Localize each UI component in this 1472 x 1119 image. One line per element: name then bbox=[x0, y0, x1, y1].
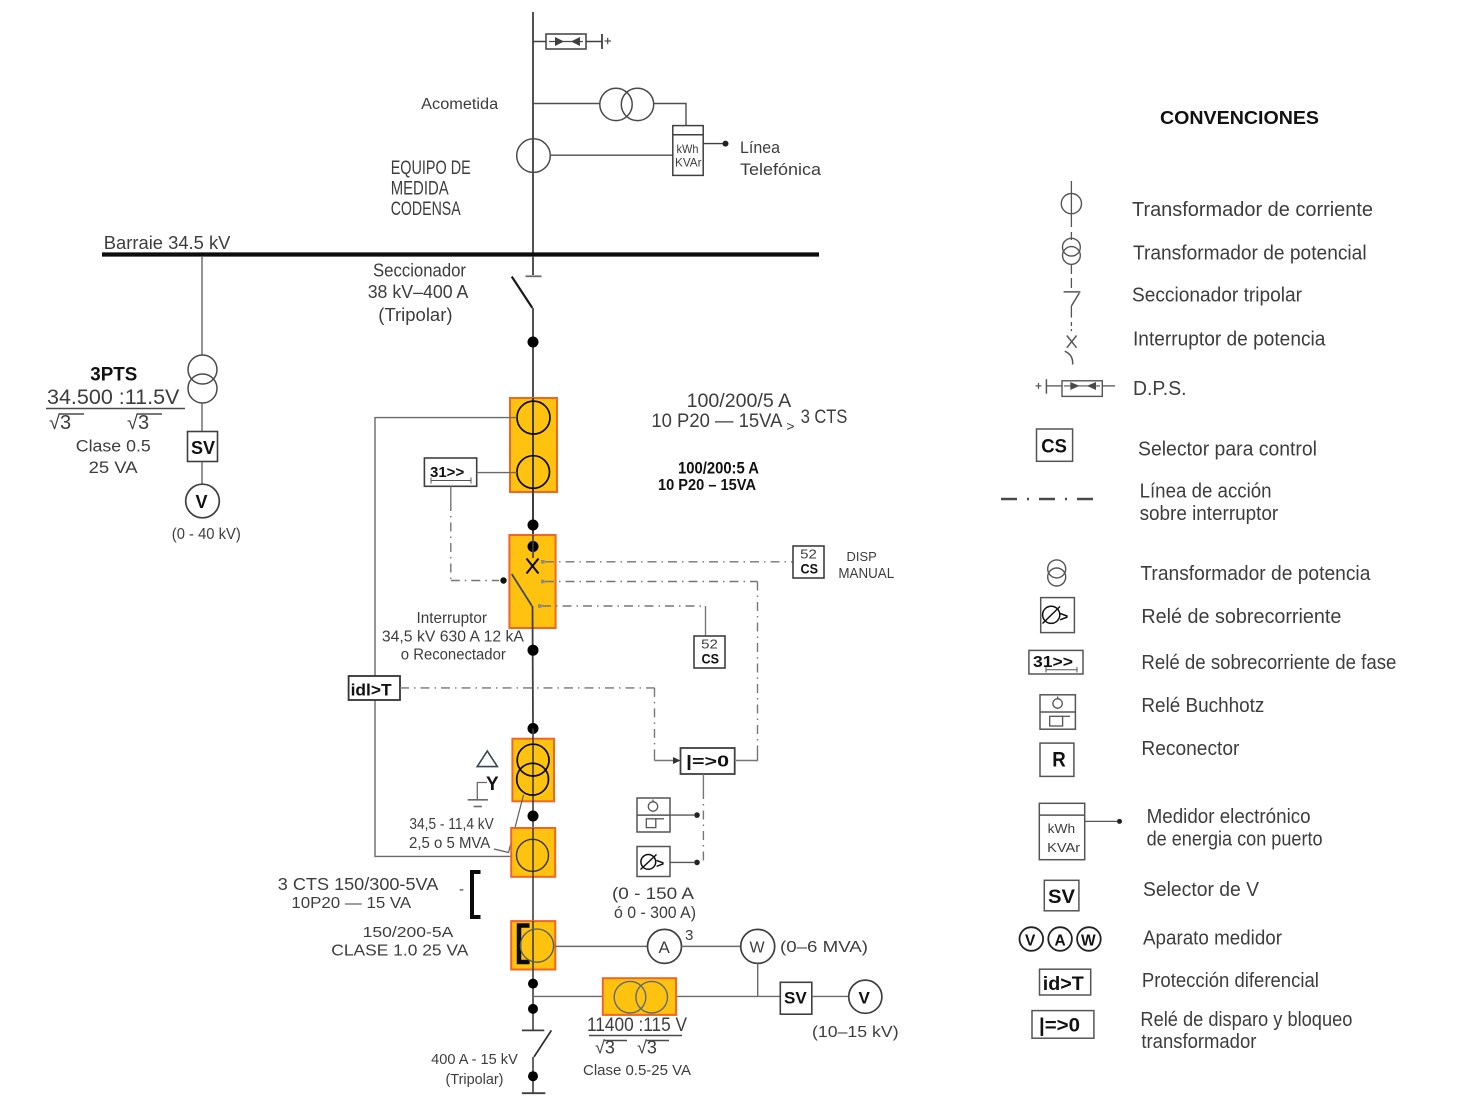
svg-text:DISP: DISP bbox=[847, 549, 877, 564]
svg-text:ó 0 - 300 A): ó 0 - 300 A) bbox=[614, 904, 696, 922]
svg-text:D.P.S.: D.P.S. bbox=[1133, 378, 1187, 400]
legend: reconector R box bbox=[1040, 743, 1074, 776]
svg-text:transformador: transformador bbox=[1141, 1031, 1256, 1053]
svg-text:31>>: 31>> bbox=[430, 464, 464, 481]
legend: phase overcurrent relay 31>> bbox=[1029, 650, 1083, 674]
svg-text:o Reconectador: o Reconectador bbox=[401, 647, 506, 664]
svg-text:Línea: Línea bbox=[740, 138, 781, 157]
svg-text:Telefónica: Telefónica bbox=[740, 160, 822, 179]
svg-text:11400 :115 V: 11400 :115 V bbox=[587, 1014, 687, 1036]
label: (0 - 150 A o 0 - 300 A) bbox=[612, 885, 696, 922]
legend: action line sample bbox=[1001, 498, 1093, 501]
wire: ammeter to wattmeter bbox=[682, 945, 741, 947]
wire: switch to CT box bbox=[532, 308, 534, 398]
wire: SV to voltmeter bbox=[201, 462, 203, 485]
wire: CT to meter bbox=[550, 154, 673, 156]
label: 100/200:5A bold CT data bbox=[658, 460, 759, 495]
svg-text:25 VA: 25 VA bbox=[89, 458, 139, 477]
legend label: Linea de accion sobre interruptor bbox=[1140, 481, 1279, 526]
differential protection relay idl>T bbox=[349, 676, 400, 700]
svg-text:Reconector: Reconector bbox=[1141, 738, 1239, 760]
svg-text:A: A bbox=[659, 938, 671, 957]
wire: main through CT box bbox=[532, 398, 534, 535]
LV PT windings bbox=[614, 981, 667, 1013]
svg-text:Seccionador tripolar: Seccionador tripolar bbox=[1132, 285, 1302, 307]
svg-text:Relé Buchhotz: Relé Buchhotz bbox=[1141, 695, 1264, 717]
svg-text:Aparato medidor: Aparato medidor bbox=[1143, 928, 1282, 950]
breaker X symbol bbox=[527, 535, 539, 574]
svg-text:kWh: kWh bbox=[1048, 821, 1076, 836]
CT box4 (3 CTS 150/300) bbox=[511, 828, 555, 877]
svg-text:10 P20 — 15VA: 10 P20 — 15VA bbox=[651, 411, 782, 432]
svg-text:Barraie 34.5 kV: Barraie 34.5 kV bbox=[104, 233, 231, 253]
potential transformers 3PTS bbox=[188, 355, 217, 403]
svg-text:SV: SV bbox=[784, 989, 807, 1008]
svg-text:kWh: kWh bbox=[677, 142, 699, 156]
current transformer CT upper bbox=[517, 401, 550, 434]
label: 3 CTS 150/300-5VA 10P20-15VA bbox=[278, 874, 439, 912]
legend: potential transformer symbol bbox=[1063, 232, 1081, 274]
label: DISP MANUAL bbox=[838, 549, 894, 582]
svg-text:EQUIPO DE: EQUIPO DE bbox=[391, 158, 471, 179]
label: EQUIPO DE MEDIDA CODENSA bbox=[391, 158, 471, 220]
selector 52/CS upper bbox=[793, 546, 824, 578]
label: 400 A - 15 kV (Tripolar) bbox=[431, 1052, 518, 1088]
svg-text:(Tripolar): (Tripolar) bbox=[446, 1072, 504, 1088]
D.P.S. surge arrester bbox=[546, 34, 586, 49]
svg-text:CS: CS bbox=[801, 560, 819, 576]
svg-text:>: > bbox=[786, 418, 794, 434]
svg-text:Relé de sobrecorriente de fase: Relé de sobrecorriente de fase bbox=[1141, 652, 1396, 674]
svg-text:(10–15 kV): (10–15 kV) bbox=[812, 1024, 899, 1041]
wire: left PT branch from bus bbox=[201, 256, 203, 356]
legend: electronic energy meter symbol bbox=[1039, 803, 1122, 859]
selector SV bbox=[188, 432, 218, 462]
svg-text:Relé de disparo y bloqueo: Relé de disparo y bloqueo bbox=[1140, 1009, 1352, 1031]
svg-text:38 kV–400 A: 38 kV–400 A bbox=[368, 282, 469, 302]
bottom seccionador 400A-15kV bbox=[522, 1030, 552, 1093]
label: Linea Telefonica bbox=[740, 138, 822, 179]
svg-text:√3: √3 bbox=[49, 412, 71, 434]
svg-text:sobre interruptor: sobre interruptor bbox=[1140, 503, 1279, 525]
wire: tap to potential transformer (Acometida metering) bbox=[533, 103, 600, 105]
voltmeter V (LV) bbox=[849, 980, 882, 1013]
svg-text:31>>: 31>> bbox=[1033, 654, 1073, 671]
wire: relay 31 to CT lower bbox=[477, 472, 517, 474]
svg-text:3PTS: 3PTS bbox=[90, 364, 137, 386]
svg-text:10P20 — 15 VA: 10P20 — 15 VA bbox=[291, 895, 411, 912]
svg-text:Selector para control: Selector para control bbox=[1138, 438, 1317, 460]
wire: overcurrent relay arrow to action line bbox=[670, 860, 700, 866]
svg-text:Interruptor de potencia: Interruptor de potencia bbox=[1133, 329, 1326, 351]
svg-text:(0 - 40 kV): (0 - 40 kV) bbox=[172, 526, 241, 543]
svg-text:CODENSA: CODENSA bbox=[391, 199, 461, 220]
ammeter A bbox=[648, 927, 694, 963]
svg-text:CS: CS bbox=[702, 650, 720, 666]
svg-text:-: - bbox=[459, 881, 464, 898]
current transformer in box4 bbox=[517, 839, 549, 871]
svg-text:Línea de acción: Línea de acción bbox=[1140, 481, 1272, 503]
svg-text:Medidor electrónico: Medidor electrónico bbox=[1147, 806, 1311, 828]
svg-text:CS: CS bbox=[1041, 437, 1067, 458]
svg-text:Y: Y bbox=[486, 774, 499, 795]
CT box5 (150/200-5A) bbox=[511, 921, 555, 969]
power transformer box bbox=[512, 739, 554, 802]
svg-text:3: 3 bbox=[685, 927, 693, 944]
svg-text:KVAr: KVAr bbox=[675, 156, 702, 170]
wire: CT box5 to ammeter bbox=[555, 945, 647, 947]
svg-text:Seccionador: Seccionador bbox=[373, 260, 466, 281]
svg-text:34.500 :11.5V: 34.500 :11.5V bbox=[47, 386, 179, 409]
svg-text:Transformador de potencia: Transformador de potencia bbox=[1140, 563, 1371, 585]
junction node bbox=[528, 520, 539, 531]
overcurrent relay (diagram) bbox=[637, 847, 670, 877]
svg-text:KVAr: KVAr bbox=[1047, 840, 1081, 855]
legend: overcurrent relay symbol bbox=[1041, 598, 1075, 633]
svg-text:2,5 o 5 MVA: 2,5 o 5 MVA bbox=[409, 835, 491, 852]
label: Seccionador 38 kV-400 A (Tripolar) bbox=[368, 260, 469, 326]
legend: differential protection id>T box bbox=[1040, 969, 1091, 995]
breaker blade bbox=[512, 574, 532, 606]
svg-text:150/200-5A: 150/200-5A bbox=[363, 924, 454, 941]
legend: CS selector box bbox=[1037, 429, 1073, 461]
potential transformer (metering) bbox=[600, 88, 654, 120]
svg-text:100/200/5 A: 100/200/5 A bbox=[687, 391, 792, 412]
svg-text:Protección diferencial: Protección diferencial bbox=[1142, 970, 1319, 992]
current transformer in box5 bbox=[520, 929, 553, 962]
wire: left riser below idl>T to CT of box4 bbox=[375, 700, 517, 856]
action line: breaker to 52CS (disp manual) bbox=[541, 560, 793, 564]
label leader line to transformer bbox=[494, 795, 524, 853]
bracket symbol for 3 CTS label bbox=[459, 872, 481, 917]
svg-text:R: R bbox=[1052, 749, 1066, 772]
current transformer CT lower bbox=[517, 456, 550, 489]
ground connection of Y bbox=[468, 783, 488, 807]
svg-text:34,5 kV 630 A 12 kA: 34,5 kV 630 A 12 kA bbox=[382, 628, 525, 645]
wire: meter output arrow to telephone line bbox=[703, 141, 728, 147]
svg-text:(0 - 150 A: (0 - 150 A bbox=[612, 885, 694, 903]
label: 34,5 - 11,4 kV / 2,5 o 5 MVA bbox=[409, 816, 494, 852]
legend: power transformer symbol bbox=[1048, 560, 1066, 586]
CT assembly box (100/200/5) bbox=[510, 398, 557, 492]
action line: breaker blade to 52CS lower bbox=[538, 604, 706, 636]
svg-text:100/200:5 A: 100/200:5 A bbox=[678, 460, 759, 478]
legend: trip and block relay box bbox=[1032, 1011, 1094, 1039]
label: Interruptor 34,5 kV 630 A 12 kA o Reconectador bbox=[382, 610, 525, 664]
legend: Buchholz relay symbol bbox=[1040, 695, 1075, 729]
svg-text:3 CTS 150/300-5VA: 3 CTS 150/300-5VA bbox=[278, 874, 439, 894]
junction node between transformer and CT box4 bbox=[528, 811, 539, 822]
legend label: Medidor electronico de energia con puerto bbox=[1147, 806, 1323, 851]
svg-text:Interruptor: Interruptor bbox=[417, 610, 488, 627]
svg-text:|=>0: |=>0 bbox=[686, 754, 729, 771]
svg-text:CONVENCIONES: CONVENCIONES bbox=[1160, 108, 1319, 128]
junction node bbox=[528, 1004, 538, 1014]
junction node below breaker bbox=[528, 645, 539, 656]
selector 52/CS lower bbox=[694, 636, 725, 668]
svg-text:SV: SV bbox=[1048, 887, 1075, 908]
label: 3PTS ratio block bbox=[46, 364, 185, 478]
legend: current transformer symbol bbox=[1061, 181, 1081, 227]
svg-text:MEDIDA: MEDIDA bbox=[391, 178, 449, 199]
wire: CT upper secondary to left riser bbox=[375, 418, 517, 676]
legend label: Rele de disparo y bloqueo transformador bbox=[1140, 1009, 1352, 1053]
legend: D.P.S. symbol bbox=[1036, 379, 1116, 396]
kWh KVAr energy meter bbox=[673, 126, 703, 176]
current transformer (metering) bbox=[517, 139, 551, 173]
wire: 3PTS to SV selector bbox=[201, 403, 203, 431]
svg-text:id>T: id>T bbox=[1043, 974, 1084, 995]
wattmeter W bbox=[741, 929, 775, 963]
svg-text:V: V bbox=[196, 492, 208, 512]
svg-text:CLASE 1.0 25 VA: CLASE 1.0 25 VA bbox=[331, 943, 468, 960]
relay 31>> (phase overcurrent) bbox=[424, 458, 476, 486]
junction node inside breaker bbox=[528, 541, 539, 552]
label: 100/200/5 A CT data bbox=[651, 391, 847, 434]
DPS earth tick and polarity mark bbox=[602, 34, 611, 49]
svg-text:Transformador de corriente: Transformador de corriente bbox=[1132, 199, 1373, 221]
seccionador tripolar switch bbox=[512, 256, 542, 308]
svg-text:V: V bbox=[1025, 933, 1036, 950]
wire: tap to DPS bbox=[533, 41, 546, 43]
svg-text:Transformador de potencial: Transformador de potencial bbox=[1133, 242, 1367, 264]
wire: PT to meter bbox=[654, 104, 686, 126]
wire: LV PT horizontal run bbox=[533, 995, 780, 997]
LV potential transformer box bbox=[603, 978, 676, 1015]
svg-text:(Tripolar): (Tripolar) bbox=[378, 305, 452, 325]
label: 11400:115V ratio bbox=[583, 1014, 691, 1079]
svg-text:V: V bbox=[859, 989, 871, 1008]
wire: breaker to lower junction bbox=[532, 606, 535, 729]
wire: wattmeter drop to PT line bbox=[757, 963, 759, 996]
label: 150/200-5A CLASE 1.0 25 VA bbox=[331, 924, 468, 960]
svg-text:>: > bbox=[656, 855, 664, 871]
svg-text:3 CTS: 3 CTS bbox=[801, 407, 848, 428]
svg-text:A: A bbox=[1055, 933, 1066, 950]
action line: I=>0 down to transformer relays bbox=[702, 774, 704, 862]
svg-text:Acometida: Acometida bbox=[421, 96, 498, 113]
svg-text:>: > bbox=[1060, 609, 1069, 626]
junction node bbox=[528, 979, 538, 989]
bus bar 34.5 kV bbox=[102, 252, 819, 256]
svg-text:400 A - 15 kV: 400 A - 15 kV bbox=[431, 1052, 518, 1068]
svg-text:(0–6 MVA): (0–6 MVA) bbox=[780, 939, 868, 956]
trip and block relay I=>0 bbox=[681, 748, 735, 774]
svg-text:W: W bbox=[750, 940, 766, 957]
svg-text:MANUAL: MANUAL bbox=[838, 566, 894, 582]
legend: interruptor de potencia symbol bbox=[1065, 322, 1077, 365]
wire through transformer bbox=[532, 729, 534, 829]
action line: idl>T to trip relay bbox=[400, 688, 681, 764]
Buchholz relay (diagram) bbox=[637, 798, 670, 832]
svg-text:Clase 0.5: Clase 0.5 bbox=[76, 437, 151, 456]
svg-text:idl>T: idl>T bbox=[351, 680, 393, 699]
svg-text:de energia con puerto: de energia con puerto bbox=[1147, 829, 1323, 851]
wire: incoming feeder vertical bbox=[532, 12, 534, 254]
wire: SV to voltmeter bbox=[812, 995, 849, 997]
svg-text:Relé de sobrecorriente: Relé de sobrecorriente bbox=[1141, 606, 1341, 628]
action line: relay 31 to breaker bbox=[451, 486, 507, 583]
svg-text:√3: √3 bbox=[127, 412, 149, 434]
legend: seccionador tripolar symbol bbox=[1064, 278, 1081, 318]
svg-text:SV: SV bbox=[191, 438, 215, 458]
svg-text:34,5 - 11,4 kV: 34,5 - 11,4 kV bbox=[409, 816, 494, 833]
svg-text:10 P20 – 15VA: 10 P20 – 15VA bbox=[658, 477, 756, 494]
svg-text:|=>0: |=>0 bbox=[1039, 1016, 1080, 1037]
delta winding symbol bbox=[477, 751, 497, 767]
legend: SV selector box bbox=[1044, 880, 1079, 911]
svg-text:Selector de V: Selector de V bbox=[1143, 879, 1260, 901]
wire through box4 bbox=[532, 828, 534, 921]
selector SV (LV) bbox=[780, 982, 812, 1014]
voltmeter V bbox=[186, 484, 220, 518]
breaker box (interruptor) bbox=[509, 535, 555, 628]
wire through box5 bbox=[532, 921, 534, 1030]
thick bracket inside box5 bbox=[519, 926, 530, 963]
wire: DPS to earth tick bbox=[586, 41, 602, 43]
power transformer windings bbox=[517, 744, 549, 795]
legend: measuring devices V A W bbox=[1020, 927, 1101, 951]
junction node bbox=[528, 337, 539, 348]
svg-text:W: W bbox=[1081, 933, 1096, 950]
svg-text:Clase 0.5-25 VA: Clase 0.5-25 VA bbox=[583, 1062, 691, 1079]
action line: breaker to trip relay riser bbox=[541, 580, 758, 761]
junction node above power transformer bbox=[528, 723, 539, 734]
wire: buchholz arrow to action line bbox=[670, 812, 700, 818]
